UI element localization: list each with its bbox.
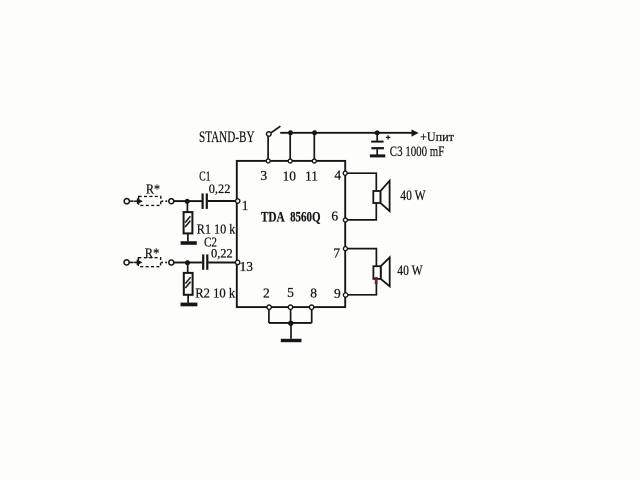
red scan artifact speaker 2 <box>375 277 378 284</box>
svg-text:R1 10 k: R1 10 k <box>197 221 236 236</box>
svg-text:R*: R* <box>146 181 160 196</box>
svg-text:0,22: 0,22 <box>209 181 231 196</box>
svg-text:C3 1000 mF: C3 1000 mF <box>390 144 445 160</box>
svg-text:R2 10 k: R2 10 k <box>195 286 235 301</box>
junction dot C3 tap <box>375 130 380 135</box>
resistor R2 hatch <box>185 277 190 288</box>
capacitor C1 plate 2 <box>206 193 208 209</box>
junction dot ch1 <box>185 199 190 204</box>
dashed wire input ch1 <box>130 200 138 202</box>
resistor R1 body <box>184 212 193 233</box>
resistor R1 hatch <box>185 216 190 227</box>
wire pin 2 down <box>268 309 270 323</box>
wire C2 to pin 13 <box>208 262 235 264</box>
wire pin 7 to speaker 2 <box>348 249 377 267</box>
svg-text:6: 6 <box>331 208 338 223</box>
svg-text:2: 2 <box>263 286 270 301</box>
wire speaker 2 to pin 9 <box>348 279 377 295</box>
wire junction down to R2 <box>187 263 189 273</box>
wire top bus +supply <box>280 132 412 134</box>
pin 5 circle <box>288 305 292 309</box>
label TDA 8560Q <box>261 209 321 225</box>
svg-text:11: 11 <box>305 169 318 184</box>
speaker LS2 driver box <box>373 266 380 279</box>
svg-text:4: 4 <box>334 168 341 183</box>
junction dot ch2 <box>185 260 190 265</box>
junction dot pin10 riser <box>288 130 293 135</box>
wire riser pin 11 <box>313 133 315 160</box>
svg-text:9: 9 <box>334 286 341 301</box>
input terminal circle ch2 <box>124 260 129 265</box>
switch SA stand-by blade <box>271 126 280 132</box>
optional resistor R* ch1 dashed box <box>139 196 161 205</box>
wire junction to C1 <box>187 200 201 202</box>
pin 1 circle <box>236 199 240 203</box>
ground bar main <box>281 339 302 342</box>
svg-text:7: 7 <box>333 245 340 260</box>
wire pin 5 down <box>290 309 292 323</box>
capacitor C2 plate 1 <box>202 254 204 269</box>
wire terminal to junction ch1 <box>174 200 187 202</box>
wire pin 8 down <box>311 309 313 323</box>
arrow dash ch1 <box>134 199 141 203</box>
wire bus to ground <box>290 323 292 339</box>
switch contact circle <box>267 132 272 137</box>
terminal circle ch1 b <box>169 199 174 204</box>
svg-text:1: 1 <box>242 198 249 213</box>
IC U1 TDA8560Q body <box>237 161 345 307</box>
pin 4 circle <box>343 171 347 175</box>
wire bottom bus <box>269 322 312 324</box>
wire junction to C2 <box>188 262 203 264</box>
wire C1 to pin 1 <box>208 200 235 202</box>
capacitor C2 plate 2 <box>206 254 208 269</box>
dashed wire to terminal ch1 <box>161 200 168 202</box>
capacitor C3 plate 1 <box>371 141 383 143</box>
svg-text:8560Q: 8560Q <box>290 209 321 225</box>
wire switch to pin 3 <box>267 136 269 159</box>
capacitor C3 polarity plus <box>386 135 391 139</box>
svg-text:STAND-BY: STAND-BY <box>199 129 255 146</box>
label STAND-BY <box>199 129 255 146</box>
svg-text:8: 8 <box>310 285 317 300</box>
capacitor C3 stem <box>376 133 378 141</box>
svg-text:40 W: 40 W <box>400 188 426 204</box>
pin 3 circle <box>266 159 270 163</box>
terminal circle ch2 b <box>169 260 174 265</box>
pin 6 circle <box>343 218 347 222</box>
dashed wire input ch2 <box>130 261 138 263</box>
svg-text:TDA: TDA <box>261 209 285 225</box>
capacitor C1 plate 1 <box>202 193 204 209</box>
speaker LS2 cone <box>381 257 390 286</box>
pin 11 circle <box>312 159 316 163</box>
svg-text:5: 5 <box>287 285 294 300</box>
arrow to +Uпит <box>412 129 419 136</box>
junction dot bottom bus <box>288 321 293 326</box>
pin 7 circle <box>343 247 347 251</box>
capacitor C3 plate 2 <box>371 147 384 149</box>
wire C3 to ground <box>376 149 378 154</box>
input terminal circle ch1 <box>124 199 129 204</box>
label C3 1000 mF <box>390 144 445 160</box>
wire R2 to ground <box>187 295 189 303</box>
pin 13 circle <box>235 260 239 264</box>
label +Uпит <box>420 130 455 144</box>
speaker LS1 cone <box>381 181 390 211</box>
wire pin 4 to speaker 1 <box>347 173 376 191</box>
arrow dash ch2 <box>134 261 141 265</box>
svg-text:10: 10 <box>283 169 297 184</box>
dashed wire to terminal ch2 <box>161 261 168 263</box>
pin 10 circle <box>288 159 292 163</box>
svg-text:40 W: 40 W <box>397 263 423 279</box>
svg-text:+Uпит: +Uпит <box>420 130 455 144</box>
ground bar R2 <box>181 303 198 307</box>
svg-text:R*: R* <box>145 246 160 261</box>
svg-text:0,22: 0,22 <box>211 245 233 260</box>
junction dot pin11 riser <box>312 130 317 135</box>
svg-text:3: 3 <box>260 168 267 183</box>
speaker LS1 driver box <box>373 191 380 203</box>
ground bar below C3 <box>370 154 385 157</box>
pin 2 circle <box>267 305 271 309</box>
pin 8 circle <box>309 305 313 309</box>
pin 9 circle <box>343 293 347 297</box>
svg-text:13: 13 <box>239 259 253 274</box>
resistor R2 body <box>184 273 193 295</box>
wire speaker 1 to pin 6 <box>348 203 377 220</box>
wire terminal to junction ch2 <box>174 262 188 264</box>
ground bar R1 <box>181 241 197 245</box>
optional resistor R* ch2 dashed box <box>138 258 160 267</box>
wire R1 to ground <box>187 233 189 241</box>
wire junction down to R1 <box>186 201 188 212</box>
wire riser pin 10 <box>289 133 291 160</box>
